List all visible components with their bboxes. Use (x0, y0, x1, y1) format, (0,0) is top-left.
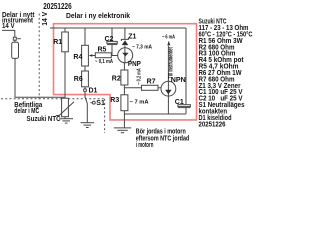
resistor R6 (82, 71, 89, 87)
svg-text:14 V: 14 V (40, 12, 49, 26)
wire: R3 to bottom rail (123, 111, 125, 114)
svg-text:~ 0,1 mA: ~ 0,1 mA (95, 59, 113, 65)
wire: bottom rail (124, 113, 186, 115)
arrow to instrument (167, 41, 170, 46)
svg-text:D1: D1 (89, 87, 98, 94)
ground (under S1) (81, 123, 95, 128)
svg-text:~ 6 mA: ~ 6 mA (162, 34, 175, 40)
diode D1 (kiseldiod) (84, 89, 87, 92)
wire: NPN collector up (till instrumentet) (167, 46, 169, 82)
ground (main, bör jordas i motorn) (114, 128, 131, 133)
wire: NTC to ground (64, 117, 66, 119)
svg-text:R4: R4 (73, 54, 82, 61)
svg-text:~ 7,3 mA: ~ 7,3 mA (132, 44, 152, 50)
capacitor C1 (178, 105, 191, 108)
wire: junction to R7 (124, 87, 141, 89)
wire: rail to Z1 (124, 28, 126, 39)
R4 wiper arrow (89, 54, 93, 56)
svg-text:R3: R3 (110, 97, 119, 104)
svg-text:Z1: Z1 (128, 34, 136, 41)
transistor Q2 NPN (161, 81, 176, 96)
svg-text:delar i MC: delar i MC (14, 108, 39, 115)
transistor Q1 PNP (118, 48, 133, 63)
wire: Z1 to PNP (124, 46, 126, 49)
svg-text:PNP: PNP (128, 61, 141, 68)
wire: wiper to R5 (92, 55, 95, 57)
wire: terminal to coil (14, 40, 16, 42)
svg-text:R2: R2 (112, 76, 121, 83)
instrument coil (gauge) (12, 42, 19, 58)
svg-text:20251226: 20251226 (199, 121, 226, 128)
terminal (instrument connector) (13, 37, 16, 40)
wire: 14V feed in instrument (2, 30, 15, 37)
svg-text:S1: S1 (96, 100, 105, 107)
thermistor NTC (Suzuki) (62, 98, 69, 117)
wire: rail to R4 (84, 28, 86, 45)
wire: coil down and right to NTC node (15, 58, 65, 97)
red border: Delar i ny elektronik region (54, 24, 197, 120)
boundary dashed line (befintliga delar i MC, right) (104, 99, 106, 133)
resistor R1 (62, 32, 69, 52)
wire: R7 to NPN base (158, 87, 161, 89)
zener Z1 (121, 38, 128, 45)
wire: rail to R1 (64, 28, 66, 32)
wire: NPN emitter to bottom rail (167, 96, 169, 114)
switch S1 blade (85, 97, 87, 104)
wire: S1 contact stub (90, 102, 92, 104)
resistor R7 (142, 85, 159, 90)
wire: D1 down to switch (84, 92, 86, 98)
svg-text:Till instrumentet: Till instrumentet (168, 47, 175, 79)
ground (under NTC) (59, 119, 73, 123)
wire: junction to R3 (123, 88, 125, 95)
resistor R2 (121, 70, 128, 85)
boundary dashed line (befintliga delar i MC, top) (1, 98, 105, 100)
potentiometer R4 (82, 45, 89, 66)
wire: 14V supply rail (50, 27, 186, 29)
svg-text:R1: R1 (53, 39, 62, 46)
wire: C2 to base node (111, 45, 113, 56)
switch S1 contact (92, 101, 95, 104)
svg-text:~ 7 mA: ~ 7 mA (130, 99, 149, 105)
svg-text:i motorn: i motorn (136, 142, 154, 149)
wire: R1 to NTC node (64, 52, 66, 99)
wire: PNP to R2 (123, 63, 125, 70)
wire: R6 to D1 (84, 87, 86, 89)
svg-text:C1: C1 (175, 99, 184, 106)
wire: R4 to R6 (84, 66, 86, 71)
wire: rail right drop to C1 (185, 28, 187, 105)
svg-text:Delar i ny elektronik: Delar i ny elektronik (66, 13, 130, 20)
svg-text:R7: R7 (147, 78, 156, 85)
wire: C1 to bottom rail (185, 108, 187, 114)
resistor R5 (95, 53, 111, 58)
wire: R2 to junction (123, 85, 125, 88)
svg-text:14 V: 14 V (2, 23, 15, 30)
svg-text:Suzuki NTC: Suzuki NTC (27, 116, 61, 123)
wire: bottom rail to ground (123, 114, 125, 128)
svg-text:~ 0,2 mA: ~ 0,2 mA (136, 68, 142, 85)
svg-text:C2: C2 (105, 36, 114, 43)
svg-text:R6: R6 (74, 76, 83, 83)
resistor R3 (121, 95, 128, 111)
capacitor C2 (107, 41, 117, 44)
wire: terminal stub (17, 38, 21, 40)
NTC diagonal stroke (56, 102, 74, 116)
legend: component values (199, 19, 253, 129)
svg-text:R5: R5 (98, 47, 107, 54)
svg-text:20251226: 20251226 (43, 1, 72, 11)
wire: R5 to PNP base (111, 55, 118, 57)
wire: rail to C2 (111, 28, 113, 41)
wire: S1 to ground (86, 104, 88, 123)
boundary dashed line (instrument / elektronik) (38, 14, 40, 99)
